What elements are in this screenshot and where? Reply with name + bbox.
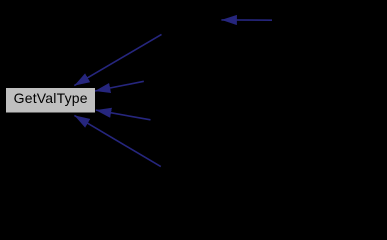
svg-text:GetValType: GetValType: [14, 90, 88, 106]
edge from top caller node to GetValType: [74, 34, 161, 85]
edge from far-right caller node to top caller node: [221, 19, 272, 21]
edge from fourth caller node to GetValType: [74, 115, 160, 166]
edge from third caller node to GetValType: [96, 110, 151, 120]
edge from second caller node to GetValType: [95, 81, 144, 91]
node GetValType (current function, grey box): [6, 88, 95, 113]
